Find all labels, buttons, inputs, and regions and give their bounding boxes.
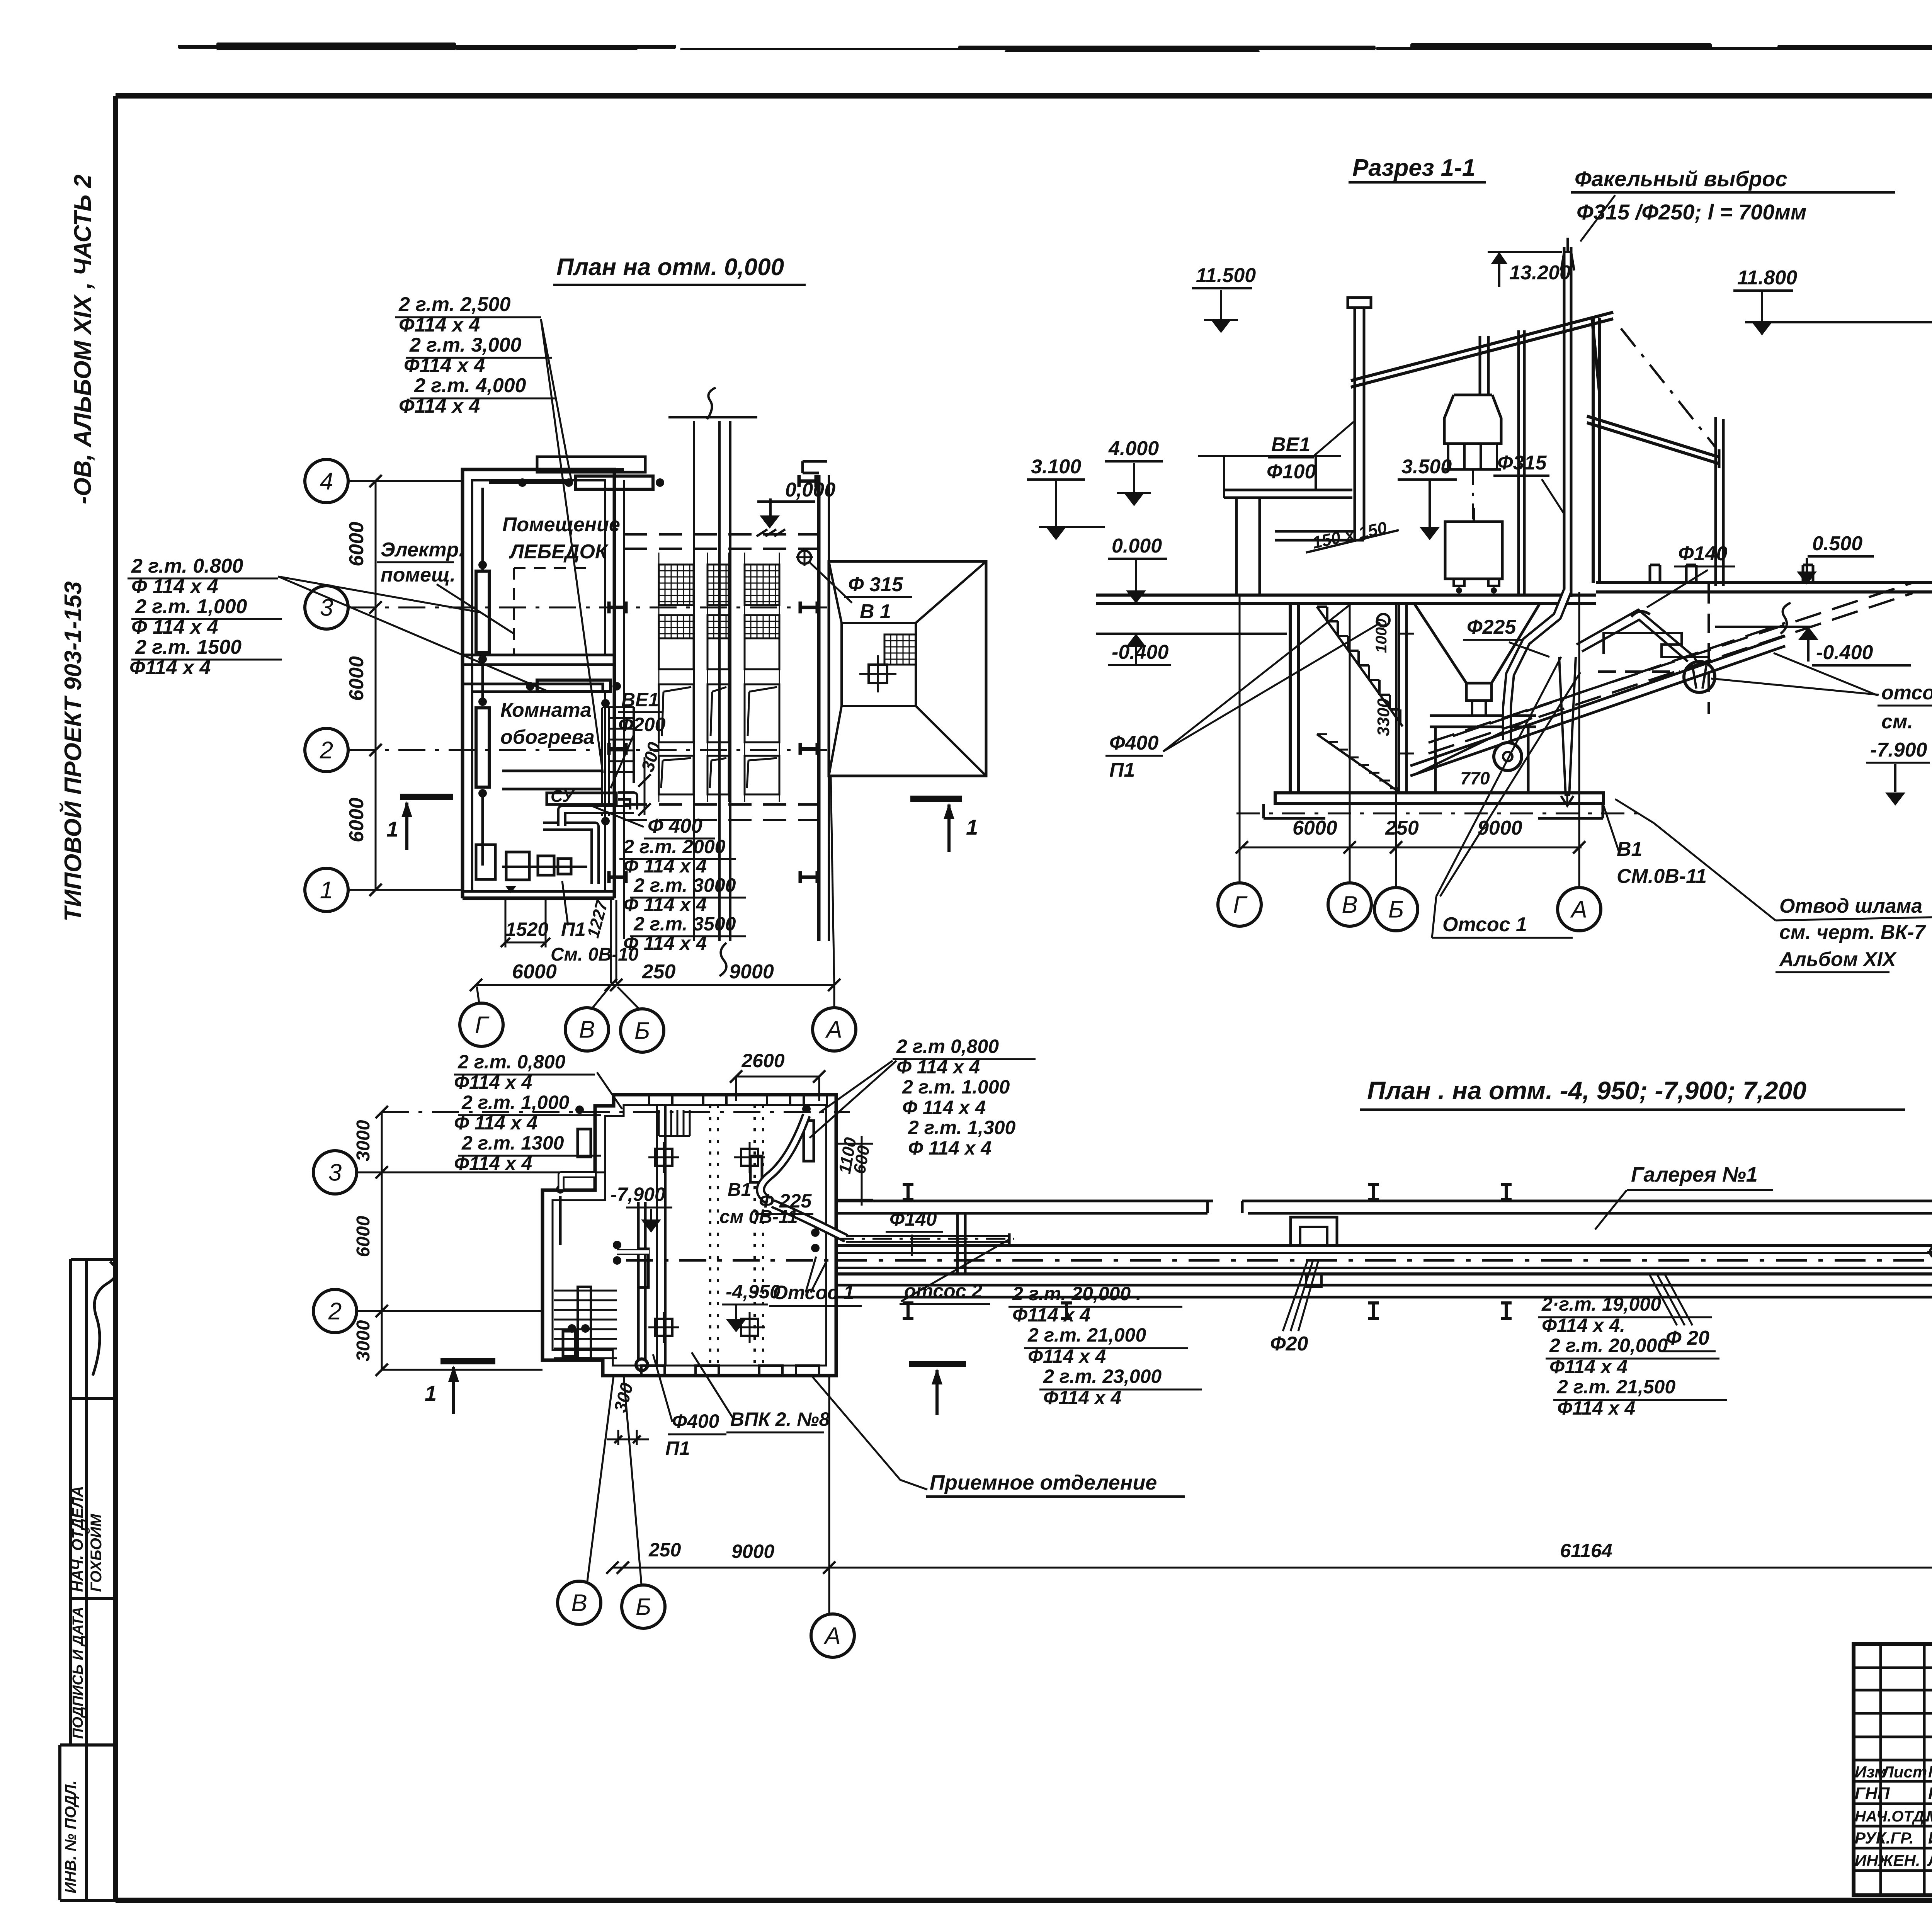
svg-text:Ф20: Ф20	[1270, 1333, 1308, 1355]
svg-text:N докум.: N докум.	[1928, 1762, 1932, 1781]
svg-text:Ф114 х 4: Ф114 х 4	[454, 1071, 532, 1093]
svg-text:2 г.т. 3500: 2 г.т. 3500	[633, 913, 736, 935]
svg-text:Ф140: Ф140	[1678, 543, 1727, 565]
svg-text:2 г.т. 21,500: 2 г.т. 21,500	[1557, 1376, 1675, 1398]
svg-text:2 г.т. 1300: 2 г.т. 1300	[461, 1132, 564, 1154]
svg-text:ГОХБОЙМ: ГОХБОЙМ	[87, 1514, 105, 1592]
svg-text:2600: 2600	[741, 1050, 784, 1071]
svg-text:Ф114 х 4: Ф114 х 4	[404, 354, 485, 377]
svg-text:Изм: Изм	[1855, 1763, 1886, 1781]
svg-text:План . на отм. -4, 950; -7,90: План . на отм. -4, 950; -7,900; 7,200	[1367, 1076, 1806, 1105]
svg-text:2 г.т. 20,000 .: 2 г.т. 20,000 .	[1012, 1283, 1141, 1304]
svg-text:ГНП: ГНП	[1855, 1784, 1890, 1803]
svg-text:Ф225: Ф225	[1467, 616, 1516, 638]
svg-text:3.500: 3.500	[1401, 456, 1452, 478]
svg-text:РУК.ГР.: РУК.ГР.	[1855, 1829, 1914, 1847]
svg-text:ИЛЬИН: ИЛЬИН	[1928, 1828, 1932, 1847]
svg-text:Ф 400: Ф 400	[648, 815, 702, 837]
svg-text:НАЧ. ОТДЕЛА: НАЧ. ОТДЕЛА	[69, 1486, 86, 1592]
svg-text:6000: 6000	[512, 961, 557, 983]
svg-text:-7.900: -7.900	[1870, 739, 1927, 761]
svg-text:Ф114 х 4: Ф114 х 4	[399, 314, 480, 336]
svg-text:Ф 315: Ф 315	[848, 573, 903, 596]
svg-text:2: 2	[320, 737, 333, 764]
svg-text:ИНВ. № ПОДЛ.: ИНВ. № ПОДЛ.	[62, 1780, 79, 1893]
svg-text:250: 250	[642, 961, 676, 983]
svg-text:Приемное отделение: Приемное отделение	[930, 1471, 1157, 1494]
svg-text:250: 250	[1385, 817, 1419, 839]
svg-text:1: 1	[386, 817, 398, 841]
svg-text:Ф114 х 4: Ф114 х 4	[1043, 1387, 1121, 1408]
svg-text:Ф114 х 4: Ф114 х 4	[129, 656, 211, 679]
svg-text:Ф400: Ф400	[1109, 732, 1158, 754]
svg-text:В1: В1	[728, 1180, 751, 1200]
svg-text:0.500: 0.500	[1812, 532, 1862, 555]
svg-text:2·г.т. 19,000: 2·г.т. 19,000	[1541, 1293, 1661, 1315]
svg-text:Ф140: Ф140	[889, 1208, 937, 1230]
svg-text:1: 1	[966, 815, 978, 839]
svg-text:В 1: В 1	[860, 600, 891, 623]
svg-text:61164: 61164	[1560, 1540, 1612, 1561]
svg-text:помещ.: помещ.	[381, 564, 456, 586]
svg-text:Отсос 1: Отсос 1	[1442, 913, 1527, 936]
svg-text:Ф114 х 4.: Ф114 х 4.	[1542, 1315, 1625, 1336]
svg-text:отсос 2: отсос 2	[904, 1280, 982, 1302]
svg-text:2 г.т. 0,800: 2 г.т. 0,800	[457, 1051, 566, 1073]
svg-text:3: 3	[328, 1160, 342, 1186]
svg-text:см.: см.	[1881, 711, 1913, 733]
svg-text:2 г.т. 23,000: 2 г.т. 23,000	[1043, 1366, 1162, 1387]
svg-text:П1: П1	[665, 1437, 690, 1459]
svg-text:13.200: 13.200	[1509, 262, 1571, 284]
svg-text:-0.400: -0.400	[1816, 641, 1873, 664]
svg-text:обогрева: обогрева	[500, 726, 595, 748]
svg-text:Ф 225: Ф 225	[759, 1190, 812, 1212]
svg-text:2 г.т. 0.800: 2 г.т. 0.800	[131, 555, 243, 577]
svg-text:2 г.т. 1500: 2 г.т. 1500	[135, 636, 241, 658]
svg-text:6000: 6000	[353, 1216, 374, 1257]
svg-text:Ф114 х 4: Ф114 х 4	[1557, 1397, 1635, 1419]
svg-text:В: В	[1342, 892, 1357, 918]
svg-text:Комната: Комната	[500, 699, 592, 721]
svg-text:Ф315: Ф315	[1497, 452, 1547, 474]
svg-text:Электр.: Электр.	[381, 539, 464, 561]
svg-text:0.000: 0.000	[1112, 535, 1162, 557]
svg-text:см. черт. ВК-7: см. черт. ВК-7	[1779, 921, 1926, 944]
svg-text:Отвод шлама: Отвод шлама	[1779, 895, 1922, 917]
svg-text:11.500: 11.500	[1196, 264, 1256, 287]
svg-text:9000: 9000	[731, 1541, 774, 1562]
svg-text:2 г.т. 1,300: 2 г.т. 1,300	[908, 1117, 1016, 1138]
svg-text:Б: Б	[1388, 896, 1404, 923]
svg-text:Факельный выброс: Факельный выброс	[1575, 167, 1787, 191]
svg-text:А: А	[1570, 896, 1587, 923]
svg-text:9000: 9000	[729, 961, 774, 983]
svg-text:В: В	[571, 1590, 587, 1617]
svg-text:МИХАЛЕВСКИЙ: МИХАЛЕВСКИЙ	[1926, 1807, 1932, 1825]
svg-text:1: 1	[425, 1381, 437, 1405]
svg-text:-ОВ, АЛЬБОМ ХIХ , ЧАСТЬ 2: -ОВ, АЛЬБОМ ХIХ , ЧАСТЬ 2	[70, 175, 96, 504]
svg-text:Галерея №1: Галерея №1	[1631, 1163, 1758, 1186]
svg-text:3000: 3000	[353, 1320, 374, 1361]
svg-text:Ф 114 х 4: Ф 114 х 4	[454, 1112, 537, 1134]
svg-text:Ф200: Ф200	[618, 714, 666, 735]
svg-text:Лист: Лист	[1881, 1763, 1927, 1781]
svg-text:В1: В1	[1617, 838, 1642, 861]
svg-text:Б: Б	[636, 1594, 651, 1621]
svg-text:Г: Г	[1233, 892, 1248, 918]
svg-text:ИНЖЕН.: ИНЖЕН.	[1855, 1851, 1920, 1869]
svg-text:П1: П1	[1109, 759, 1135, 781]
svg-text:4.000: 4.000	[1108, 437, 1159, 460]
svg-text:2 г.т. 4,000: 2 г.т. 4,000	[414, 374, 526, 397]
svg-text:2 г.т. 1,000: 2 г.т. 1,000	[135, 595, 247, 618]
svg-text:9000: 9000	[1478, 817, 1522, 839]
svg-text:СМ.0В-11: СМ.0В-11	[1617, 865, 1707, 888]
svg-text:3000: 3000	[353, 1120, 374, 1161]
svg-text:3.100: 3.100	[1031, 456, 1081, 478]
svg-text:770: 770	[1460, 768, 1490, 788]
svg-text:См. 0В-10: См. 0В-10	[551, 944, 639, 965]
svg-text:Ф 114 х 4: Ф 114 х 4	[623, 855, 707, 877]
svg-text:Ф100: Ф100	[1267, 461, 1316, 483]
svg-text:Ф114 х 4: Ф114 х 4	[1549, 1356, 1628, 1378]
svg-text:ТИПОВОЙ ПРОЕКТ 903-1-153: ТИПОВОЙ ПРОЕКТ 903-1-153	[59, 581, 87, 922]
svg-text:250: 250	[648, 1539, 681, 1561]
svg-text:План на отм. 0,000: План на отм. 0,000	[556, 254, 784, 281]
svg-text:2 г.т. 3000: 2 г.т. 3000	[633, 874, 736, 896]
svg-text:2 г.т. 1.000: 2 г.т. 1.000	[902, 1076, 1010, 1098]
svg-text:6000: 6000	[345, 798, 368, 842]
svg-text:отсос 2: отсос 2	[1881, 682, 1932, 704]
svg-text:Ф 114 х 4: Ф 114 х 4	[623, 894, 707, 915]
svg-text:11.800: 11.800	[1737, 267, 1797, 289]
svg-text:2 г.т 0,800: 2 г.т 0,800	[896, 1036, 999, 1057]
svg-text:2 г.т. 2,500: 2 г.т. 2,500	[398, 293, 511, 316]
svg-text:2: 2	[328, 1298, 342, 1325]
svg-text:Б: Б	[634, 1018, 650, 1044]
svg-text:2 г.т. 2000: 2 г.т. 2000	[623, 836, 726, 857]
svg-text:6000: 6000	[345, 522, 368, 566]
svg-text:Помещение: Помещение	[502, 514, 620, 536]
svg-text:Ф114 х 4: Ф114 х 4	[399, 395, 480, 417]
svg-text:ВПК 2. №8: ВПК 2. №8	[730, 1408, 830, 1430]
svg-text:Ф 114 х 4: Ф 114 х 4	[131, 616, 218, 638]
svg-text:ПОДПИСЬ И ДАТА: ПОДПИСЬ И ДАТА	[70, 1607, 86, 1739]
svg-text:4: 4	[320, 468, 333, 495]
svg-text:А: А	[825, 1017, 842, 1043]
svg-text:Ф114 х 4: Ф114 х 4	[1012, 1304, 1090, 1326]
svg-text:6000: 6000	[1293, 817, 1337, 839]
svg-text:Ф 114 х 4: Ф 114 х 4	[902, 1097, 986, 1118]
svg-text:-4,950: -4,950	[726, 1281, 781, 1303]
svg-text:2 г.т. 1,000: 2 г.т. 1,000	[461, 1092, 570, 1113]
svg-text:Ф400: Ф400	[672, 1410, 719, 1432]
svg-text:А: А	[823, 1623, 840, 1650]
svg-text:ВЕ1: ВЕ1	[1271, 434, 1310, 456]
svg-text:Ф315 /Ф250; l = 700мм: Ф315 /Ф250; l = 700мм	[1577, 200, 1806, 224]
svg-text:Ф 114 х 4: Ф 114 х 4	[908, 1137, 992, 1159]
svg-text:ЛЕБЕДОК: ЛЕБЕДОК	[509, 541, 609, 563]
svg-text:2 г.т. 20,000: 2 г.т. 20,000	[1549, 1335, 1668, 1356]
svg-text:2 г.т. 3,000: 2 г.т. 3,000	[409, 334, 522, 356]
svg-text:3300: 3300	[1374, 698, 1393, 736]
svg-text:Г: Г	[475, 1012, 490, 1039]
svg-text:6000: 6000	[345, 656, 368, 701]
svg-text:Ф114 х 4: Ф114 х 4	[1028, 1345, 1106, 1367]
svg-text:В: В	[579, 1017, 595, 1043]
svg-text:1520: 1520	[505, 918, 548, 940]
svg-text:2 г.т. 21,000: 2 г.т. 21,000	[1027, 1324, 1146, 1346]
svg-text:Ф 114 х 4: Ф 114 х 4	[896, 1056, 980, 1078]
svg-text:Ф 114 х 4: Ф 114 х 4	[131, 575, 218, 598]
svg-text:НАЧ.ОТД.: НАЧ.ОТД.	[1855, 1808, 1929, 1825]
svg-text:РАСКИН: РАСКИН	[1928, 1784, 1932, 1803]
svg-text:-7,900: -7,900	[611, 1184, 665, 1205]
svg-text:1: 1	[320, 877, 333, 904]
svg-text:Ф114 х 4: Ф114 х 4	[454, 1153, 532, 1174]
svg-text:Альбом ХIХ: Альбом ХIХ	[1779, 948, 1897, 971]
svg-text:Ф 20: Ф 20	[1666, 1327, 1709, 1349]
svg-text:Разрез 1-1: Разрез 1-1	[1352, 155, 1475, 181]
svg-text:П1: П1	[561, 918, 586, 940]
svg-text:ВЕ1: ВЕ1	[621, 689, 659, 711]
